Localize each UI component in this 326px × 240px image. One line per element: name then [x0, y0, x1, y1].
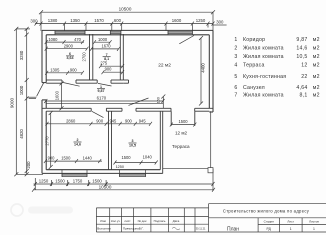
- svg-text:14,6: 14,6: [74, 143, 81, 147]
- labels left segments: [19, 50, 31, 168]
- svg-text:30.11.21: 30.11.21: [196, 226, 206, 230]
- svg-text:Строительство жилого дома по а: Строительство жилого дома по адресу: [223, 208, 310, 213]
- svg-text:1570: 1570: [94, 18, 104, 23]
- svg-text:470: 470: [74, 37, 82, 42]
- door leaf room 6: [63, 82, 80, 86]
- window W4 bottom: [62, 170, 87, 177]
- entrance door leaf top: [179, 36, 194, 44]
- svg-text:900: 900: [96, 119, 104, 124]
- svg-text:м2: м2: [313, 74, 320, 80]
- svg-text:4820: 4820: [19, 129, 24, 139]
- left segmented dimension line: [25, 27, 36, 176]
- svg-text:1350: 1350: [70, 18, 80, 23]
- interior wall between rooms 6 and 7: [90, 34, 93, 80]
- svg-text:5: 5: [234, 74, 237, 80]
- svg-text:ПрямицынаВ.Г.: ПрямицынаВ.Г.: [123, 226, 144, 230]
- room tag 7: [104, 53, 109, 61]
- svg-text:Стадия: Стадия: [264, 220, 275, 224]
- svg-text:Жилая комната: Жилая комната: [243, 93, 284, 99]
- svg-text:Терраса: Терраса: [243, 62, 265, 68]
- svg-text:м2: м2: [313, 54, 320, 60]
- svg-text:14,6: 14,6: [296, 45, 307, 51]
- bottom exterior wall: [42, 170, 163, 174]
- svg-text:2900: 2900: [64, 43, 74, 48]
- room 3 lower dim row 1500 1040: [114, 161, 158, 165]
- svg-text:1250: 1250: [196, 18, 206, 23]
- svg-text:900: 900: [125, 119, 133, 124]
- entrance door leaf left: [37, 83, 44, 97]
- door leaf room 7: [98, 83, 112, 86]
- stage header: [264, 220, 320, 224]
- svg-text:Терраса: Терраса: [172, 144, 190, 149]
- top overall dimension line 10500: [39, 10, 215, 31]
- svg-text:Санузел: Санузел: [243, 85, 265, 91]
- room 7 dim 1000: [93, 40, 112, 44]
- svg-text:10500: 10500: [99, 185, 112, 190]
- terrace dim 1500: [170, 123, 197, 127]
- room 6 dim 1305 900: [45, 71, 84, 75]
- svg-text:1500: 1500: [121, 155, 131, 160]
- corridor vertical dim 1600: [60, 81, 64, 110]
- svg-text:Коридор: Коридор: [243, 37, 265, 43]
- svg-text:9000: 9000: [10, 97, 15, 108]
- window W3 top: [168, 30, 192, 34]
- svg-text:м2: м2: [313, 45, 320, 51]
- dim 150 line: [162, 97, 164, 109]
- wall room 3 to terrace: [160, 111, 162, 173]
- room 2 vertical dim 2770: [49, 111, 53, 169]
- svg-text:2: 2: [77, 138, 79, 142]
- labels room 2 lower dims: [48, 155, 93, 160]
- labels room 3 lower dims: [121, 155, 152, 160]
- svg-text:2860: 2860: [66, 119, 76, 124]
- window W2 top: [110, 30, 121, 34]
- stage values: [267, 227, 316, 231]
- svg-text:1600: 1600: [55, 90, 60, 100]
- svg-text:Жилая комната: Жилая комната: [243, 45, 284, 51]
- room legend: [234, 37, 319, 99]
- svg-text:22: 22: [301, 74, 307, 80]
- svg-text:1670: 1670: [101, 44, 111, 49]
- svg-text:4,64: 4,64: [296, 85, 307, 91]
- svg-text:9,87: 9,87: [296, 37, 307, 43]
- watermark: [11, 204, 73, 216]
- window W5 bottom: [120, 170, 146, 177]
- svg-text:9,87: 9,87: [98, 89, 105, 93]
- left overall dimension line 9000: [14, 27, 43, 176]
- svg-text:2700: 2700: [81, 52, 86, 62]
- svg-text:900: 900: [105, 66, 113, 71]
- room 7 dim 1670: [90, 47, 120, 51]
- svg-text:План: План: [227, 227, 239, 233]
- svg-text:м2: м2: [313, 62, 320, 68]
- svg-text:Кухня-гостинная: Кухня-гостинная: [243, 74, 286, 80]
- room 6 dim line 1080 470: [45, 40, 84, 44]
- title block row texts: [97, 226, 206, 230]
- room 7 dim 900: [102, 70, 125, 74]
- svg-text:275: 275: [100, 61, 108, 66]
- svg-text:Изм: Изм: [100, 219, 106, 223]
- interior wall under rooms 6 and 7: [46, 80, 128, 83]
- svg-text:10,5: 10,5: [296, 54, 307, 60]
- svg-text:1000: 1000: [19, 85, 24, 95]
- svg-text:945: 945: [109, 119, 117, 124]
- door leaf room 2: [92, 111, 104, 117]
- svg-text:2770: 2770: [44, 136, 49, 146]
- svg-text:3280: 3280: [19, 50, 24, 60]
- right exterior wall: [209, 30, 213, 112]
- terrace corner post: [208, 168, 213, 173]
- svg-text:м2: м2: [313, 85, 320, 91]
- svg-text:м2: м2: [313, 93, 320, 99]
- svg-text:1: 1: [290, 227, 292, 231]
- svg-text:10,5: 10,5: [129, 144, 136, 148]
- svg-text:Выполнил: Выполнил: [97, 226, 111, 230]
- svg-text:6170: 6170: [97, 96, 107, 101]
- wall between rooms 2 and 3: [109, 111, 112, 170]
- room tag 2: [74, 138, 81, 146]
- svg-text:1500: 1500: [61, 156, 71, 161]
- svg-text:10500: 10500: [119, 7, 132, 12]
- svg-text:1000: 1000: [98, 37, 108, 42]
- svg-text:900: 900: [70, 68, 78, 73]
- svg-text:1250: 1250: [39, 179, 49, 184]
- interior wall between room 7 and kitchen: [120, 34, 123, 80]
- labels 1305 900: [50, 68, 77, 73]
- svg-text:1250: 1250: [116, 165, 124, 169]
- svg-text:Подпись: Подпись: [154, 219, 166, 223]
- svg-text:1080: 1080: [48, 37, 58, 42]
- corridor bottom wall: [42, 108, 213, 126]
- left exterior wall with door opening: [42, 30, 46, 173]
- rooms 2-3 dim row 2860 900 945 900 945: [46, 122, 153, 126]
- svg-text:4400: 4400: [200, 63, 205, 73]
- svg-text:1305: 1305: [50, 68, 60, 73]
- svg-text:22 м2: 22 м2: [158, 63, 171, 69]
- window W1 top: [55, 30, 85, 34]
- svg-text:РД: РД: [267, 227, 272, 231]
- svg-text:Лист: Лист: [287, 220, 294, 224]
- corridor dim 6170: [44, 99, 164, 103]
- svg-text:4: 4: [234, 62, 237, 68]
- svg-text:945: 945: [139, 119, 147, 124]
- terrace bottom edge: [163, 168, 211, 170]
- room 2 lower dim row 900 1500 1440: [44, 159, 102, 163]
- bottom dimension row 1: [34, 178, 215, 190]
- corridor tag 1: [98, 85, 105, 93]
- svg-text:1500: 1500: [55, 179, 65, 184]
- room tag 3: [129, 139, 136, 147]
- terrace right edge: [210, 111, 212, 169]
- top segmented dimension line: [35, 22, 227, 31]
- door leaf room 3: [129, 98, 149, 105]
- labels bottom row 1: [39, 179, 103, 184]
- labels 1080 470: [48, 37, 81, 42]
- svg-text:1600: 1600: [172, 18, 182, 23]
- svg-text:12 м2: 12 м2: [175, 130, 188, 135]
- svg-text:Жилая комната: Жилая комната: [243, 54, 284, 60]
- svg-text:лист: лист: [124, 219, 131, 223]
- svg-text:1500: 1500: [92, 179, 102, 184]
- svg-text:150: 150: [156, 96, 161, 103]
- svg-text:1: 1: [234, 37, 237, 43]
- svg-text:Кол.уч: Кол.уч: [111, 219, 120, 223]
- svg-text:900: 900: [48, 156, 56, 161]
- svg-text:1500: 1500: [178, 119, 188, 124]
- svg-text:4,64: 4,64: [67, 56, 74, 60]
- room 6 dim line 2900: [45, 47, 89, 51]
- top exterior wall: [42, 30, 213, 34]
- svg-text:1040: 1040: [143, 155, 153, 160]
- svg-text:12: 12: [301, 62, 307, 68]
- svg-text:2: 2: [234, 45, 237, 51]
- bottom overall dimension line 10500: [32, 169, 215, 192]
- svg-text:Дата: Дата: [173, 219, 180, 223]
- svg-text:6: 6: [234, 85, 237, 91]
- right dimension line 4400: [199, 36, 203, 106]
- title block frame: [96, 204, 326, 232]
- svg-text:1380: 1380: [48, 18, 58, 23]
- svg-text:м2: м2: [313, 37, 320, 43]
- svg-text:300: 300: [216, 20, 224, 25]
- svg-text:Листов: Листов: [309, 220, 319, 224]
- svg-text:1440: 1440: [83, 155, 93, 160]
- title block header texts: [100, 219, 179, 223]
- svg-text:1: 1: [313, 227, 315, 231]
- svg-text:1750: 1750: [73, 179, 83, 184]
- svg-text:7: 7: [234, 93, 237, 99]
- svg-text:300: 300: [30, 18, 38, 23]
- room 7 dim 275: [99, 64, 124, 68]
- room tag 6: [67, 52, 74, 60]
- svg-text:600: 600: [114, 18, 122, 23]
- svg-text:8,1: 8,1: [300, 93, 308, 99]
- labels rooms 2-3 dim row: [66, 119, 146, 124]
- svg-text:200: 200: [26, 161, 31, 169]
- svg-text:3: 3: [234, 54, 237, 60]
- labels top segments: [30, 18, 224, 24]
- svg-text:№ док: № док: [138, 219, 147, 223]
